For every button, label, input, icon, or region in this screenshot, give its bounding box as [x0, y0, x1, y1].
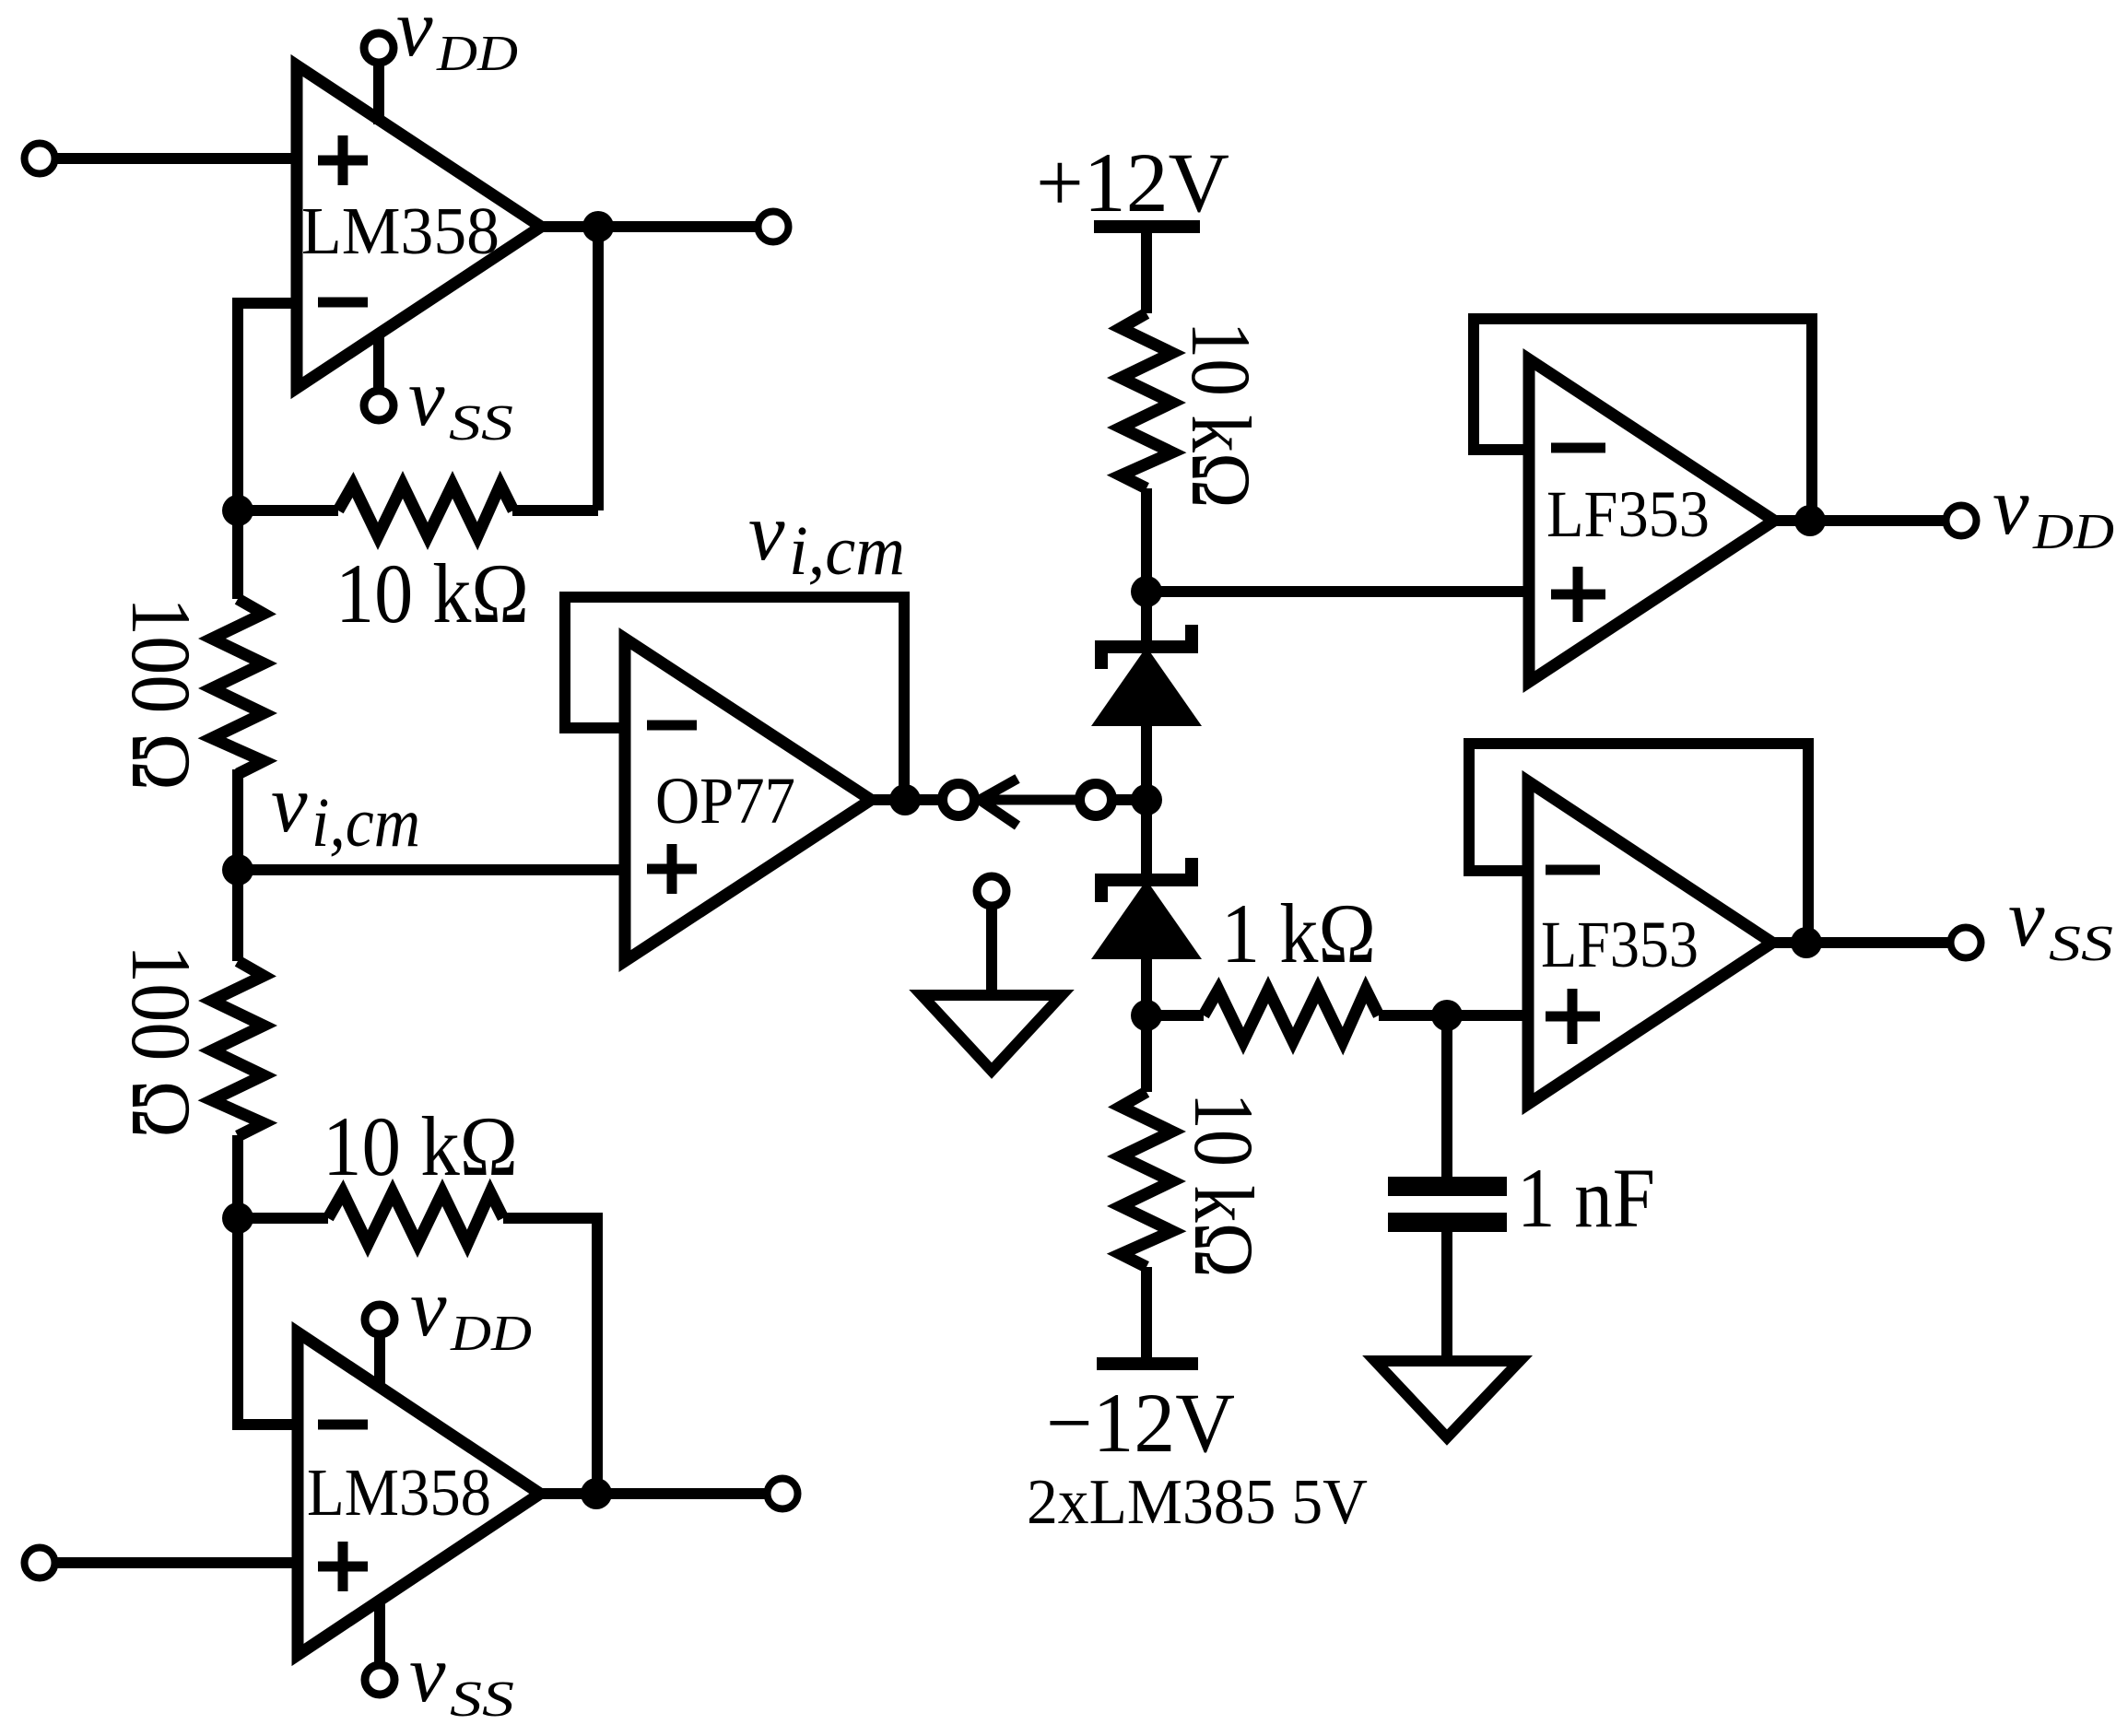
svg-text:−12V: −12V: [1046, 1376, 1235, 1470]
wire input to + of U1: [56, 153, 297, 164]
op-amp U1 LM358: [297, 65, 541, 388]
output terminal vDD: [1946, 506, 1977, 536]
resistor R1 10 k&#937;: [338, 485, 513, 536]
ground symbol mid: [922, 995, 1062, 1071]
wire to + of U5: [1447, 1010, 1528, 1021]
svg-text:10 kΩ: 10 kΩ: [1174, 322, 1268, 509]
-12V supply: [1097, 1357, 1198, 1370]
wire feedback U1: [593, 227, 604, 510]
svg-text:10 kΩ: 10 kΩ: [323, 1099, 518, 1193]
input terminal top-left: [25, 144, 55, 174]
zener D1 LM385: [1141, 592, 1152, 645]
svg-text:1 kΩ: 1 kΩ: [1221, 886, 1376, 980]
wire R4 to U2 output: [503, 1218, 597, 1494]
svg-text:LF353: LF353: [1541, 908, 1699, 981]
svg-text:v: v: [2008, 874, 2045, 964]
svg-text:DD: DD: [450, 1305, 532, 1361]
wire U5 feedback: [1469, 744, 1808, 943]
svg-text:SS: SS: [450, 1671, 514, 1727]
vSS terminal of U2: [365, 1665, 394, 1695]
resistor R3 100 &#937;: [212, 961, 264, 1136]
wire U4 feedback: [1474, 319, 1812, 521]
svg-text:v: v: [408, 353, 445, 443]
svg-text:v: v: [748, 487, 785, 578]
wire D1 to D2: [1141, 726, 1152, 874]
wire C1 to ground: [1441, 1232, 1452, 1361]
wire node A to - input of U1: [238, 303, 297, 510]
resistor R6 1 k&#937;: [1146, 1010, 1204, 1021]
svg-text:OP77: OP77: [655, 764, 795, 838]
svg-text:100 Ω: 100 Ω: [114, 597, 208, 791]
svg-text:v: v: [1993, 462, 2029, 552]
wire node B to - input of U2: [238, 1218, 298, 1425]
svg-text:100 Ω: 100 Ω: [114, 944, 208, 1138]
svg-text:SS: SS: [449, 394, 513, 451]
capacitor C1 1 nF: [1388, 1177, 1507, 1232]
wire rail to + of U4: [1146, 586, 1529, 597]
output terminal vSS: [1951, 928, 1981, 958]
wire R2 to node vi,cm: [232, 769, 243, 870]
node switch on rail: [1131, 784, 1162, 815]
op-amp U2 LM358: [298, 1332, 540, 1655]
zener D2 LM385: [1091, 858, 1202, 959]
wire vi,cm node to + of OP77: [238, 864, 625, 875]
svg-text:i,cm: i,cm: [789, 512, 905, 590]
ground terminal circle: [977, 876, 1006, 906]
wire OP77 feedback: [565, 597, 904, 800]
op-amp U4 LF353: [1529, 359, 1774, 682]
svg-text:v: v: [396, 0, 433, 74]
node U5 output: [1791, 927, 1822, 958]
wire OP77 output: [871, 794, 942, 805]
wire input to + of U2: [56, 1557, 298, 1568]
node U2 output: [581, 1478, 612, 1509]
node rail bottom: [1131, 1000, 1162, 1031]
vDD terminal of U2: [365, 1305, 394, 1334]
op-amp U5 LF353: [1528, 781, 1772, 1104]
wire to ground: [986, 908, 997, 995]
wire U1 output: [541, 221, 757, 232]
svg-text:2xLM385 5V: 2xLM385 5V: [1027, 1467, 1368, 1538]
wire R1 to node A: [238, 505, 338, 516]
svg-text:i,cm: i,cm: [312, 784, 420, 862]
input terminal bottom-left: [25, 1548, 55, 1578]
resistor R5 10 k&#937;: [1121, 313, 1172, 488]
wire U4 output: [1774, 515, 1945, 526]
wire switch to rail: [1113, 794, 1146, 805]
svg-text:v: v: [271, 759, 308, 850]
svg-text:10 kΩ: 10 kΩ: [335, 546, 529, 640]
node OP77 output: [889, 784, 921, 815]
wire cap junction to C1: [1441, 1015, 1452, 1177]
vDD terminal of U1: [364, 33, 394, 63]
svg-text:LM358: LM358: [301, 194, 500, 268]
node rail top: [1131, 576, 1162, 607]
svg-text:SS: SS: [2049, 915, 2113, 971]
svg-text:v: v: [410, 1263, 447, 1354]
node vi,cm: [222, 854, 253, 886]
svg-text:DD: DD: [2032, 503, 2114, 559]
node cap junction: [1431, 1000, 1463, 1031]
svg-text:v: v: [409, 1629, 446, 1719]
node U4 output: [1794, 505, 1826, 536]
svg-text:LM358: LM358: [307, 1455, 491, 1530]
switch S1 right contact: [1080, 784, 1112, 816]
wire U5 output: [1772, 937, 1949, 948]
output terminal top-left: [758, 212, 789, 242]
svg-text:DD: DD: [436, 25, 518, 81]
op-amp U3 OP77: [625, 639, 871, 961]
ground symbol bottom-right: [1375, 1361, 1520, 1437]
switch S1 left contact: [943, 784, 975, 816]
resistor R7 10 k&#937;: [1141, 1015, 1152, 1092]
wire R3 to node B: [232, 1135, 243, 1218]
node U1 output: [582, 211, 614, 242]
svg-text:LF353: LF353: [1546, 477, 1710, 551]
resistor R4 10 k&#937;: [328, 1192, 503, 1244]
vSS terminal of U1: [364, 391, 394, 420]
switch S1 arrow lever: [980, 779, 1076, 826]
node A: [222, 495, 253, 526]
resistor R2 100 &#937;: [212, 599, 264, 774]
svg-text:+12V: +12V: [1036, 135, 1229, 229]
node B: [222, 1202, 253, 1234]
output terminal bottom-left: [768, 1479, 798, 1509]
svg-text:1 nF: 1 nF: [1517, 1151, 1655, 1245]
svg-text:10 kΩ: 10 kΩ: [1177, 1093, 1271, 1278]
wire U2 output: [540, 1488, 766, 1499]
